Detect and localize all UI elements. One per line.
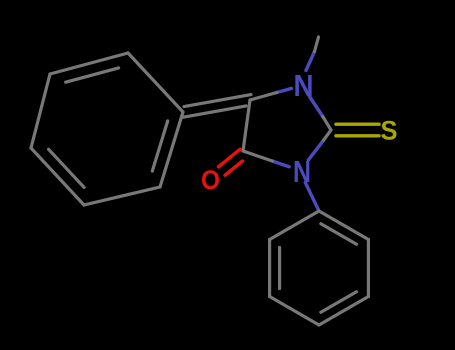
wire B-C (128, 53, 183, 112)
wire C1'-H (319, 211, 368, 240)
wire N3-C4 gray half (243, 151, 272, 161)
wire N1-C5 blue half (277, 88, 292, 92)
wire N3-C2 (308, 140, 323, 160)
wire N3-C2 gray half (324, 130, 331, 140)
wire N1-CH3 blue half (306, 52, 315, 71)
wire C=C5 upper (184, 95, 251, 107)
N3-phenyl bond (305, 183, 319, 212)
exocyclic C=C double bond (benzylidene) (182, 95, 251, 118)
wire C2=S upper (336, 122, 379, 125)
wire H-K (367, 240, 370, 297)
wire N3-C4 blue half (272, 161, 289, 167)
wire C=C5 lower (182, 106, 246, 118)
wire C4=O line1 (219, 149, 241, 167)
N-phenyl ring (bottom) (270, 211, 369, 325)
wire C-D (160, 112, 183, 187)
wire G-C1' (270, 211, 319, 240)
wire K-J (319, 297, 368, 326)
wire N1-CH3 gray half (315, 37, 319, 52)
wire A-B (50, 53, 128, 74)
wire E-F (31, 148, 84, 205)
svg-text:S: S (381, 116, 398, 146)
wire J-I (270, 297, 319, 326)
thione C2=S double bond (336, 124, 379, 136)
wire AB inner aromatic (66, 68, 119, 82)
wire N1-C5 gray half (250, 93, 277, 101)
wire N1-C2 (310, 97, 323, 117)
wire F-A (31, 74, 50, 148)
benzene ring (benzylidene phenyl) (31, 53, 183, 205)
wire I-G (268, 240, 271, 297)
wire D-E (84, 187, 160, 205)
wire CD inner aromatic (152, 121, 167, 171)
svg-text:N: N (293, 154, 311, 189)
svg-text:N: N (294, 68, 314, 103)
wire EF inner aromatic (49, 149, 84, 187)
wire C4=O line2 (225, 161, 242, 175)
carbonyl C4=O double bond (219, 149, 243, 175)
wire C2=S lower (336, 134, 379, 137)
svg-text:O: O (201, 165, 220, 195)
wire C1'-H inner aromatic (321, 224, 357, 245)
wire C4-C5 (243, 100, 250, 151)
wire K-J inner aromatic (321, 292, 357, 313)
wire I-G inner aromatic (278, 248, 281, 289)
wire N1-C2 gray half (323, 117, 331, 131)
